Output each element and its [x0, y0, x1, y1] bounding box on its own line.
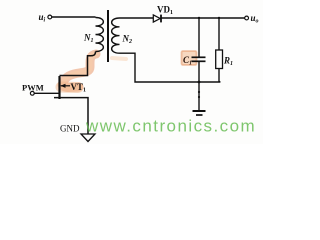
- highlighter mark over C1 label: [182, 51, 197, 65]
- wire N2 top to diode: [120, 17, 154, 19]
- transformer winding N1: [96, 18, 104, 52]
- node rail-C1: [198, 81, 201, 84]
- VT1 arrow: [61, 85, 70, 87]
- svg-text:GND: GND: [60, 124, 80, 134]
- wire PWM to VT1 base: [34, 92, 59, 94]
- PWM terminal circle: [30, 91, 34, 95]
- node C1 top: [198, 17, 200, 19]
- svg-text:www.cntronics.com: www.cntronics.com: [85, 117, 256, 136]
- wire C1 branch upper: [198, 18, 200, 57]
- diode VD1: [153, 15, 160, 22]
- transistor VT1: [58, 76, 60, 99]
- wire N1 bottom to VT1 collector: [60, 52, 96, 76]
- wire R1 branch lower: [218, 69, 220, 83]
- wire u_i to N1 top: [52, 16, 96, 18]
- highlighter mark over VT1 collector path: [61, 54, 126, 88]
- node R1 top: [218, 17, 220, 19]
- ground (left, triangle): [81, 134, 95, 142]
- input terminal circle: [48, 15, 52, 19]
- transformer core: [107, 10, 109, 62]
- resistor R1: [216, 50, 223, 69]
- wire diode to u_o: [161, 17, 245, 19]
- transformer winding N2: [112, 18, 120, 53]
- wire C1 branch lower: [198, 62, 200, 82]
- wire VT1 emitter: [54, 98, 88, 134]
- wire N2 bottom to bottom rail: [120, 53, 220, 82]
- capacitor C1: [192, 56, 206, 58]
- ground (right, bar style): [198, 82, 200, 110]
- wire R1 branch upper: [218, 18, 220, 50]
- output terminal circle: [245, 16, 249, 20]
